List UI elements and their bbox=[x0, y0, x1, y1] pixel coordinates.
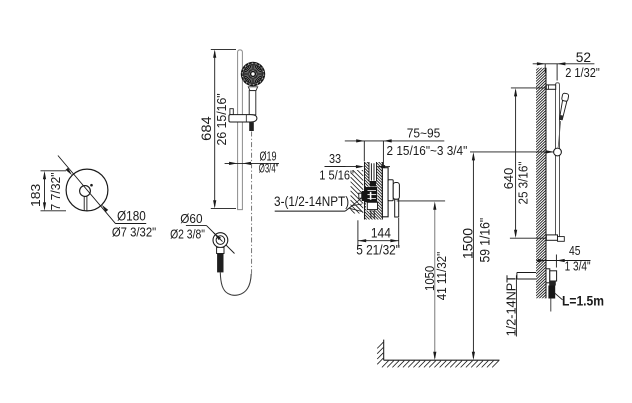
640 top extension bbox=[511, 87, 547, 89]
floor corner hatch bbox=[377, 342, 383, 364]
svg-text:Ø7 3/32": Ø7 3/32" bbox=[112, 225, 157, 240]
dimension 183 line bbox=[44, 173, 46, 209]
1500 reference line bbox=[470, 151, 553, 153]
NPT underline leader bbox=[275, 210, 346, 212]
33 underline bbox=[325, 166, 346, 168]
D60 underline bbox=[186, 225, 207, 227]
left inlet port dark bbox=[362, 191, 367, 201]
75-95 left extension bbox=[363, 141, 365, 162]
dimension 33 line left bbox=[325, 166, 363, 168]
dimension 684 bottom extension line bbox=[211, 208, 236, 210]
1050 reference line bbox=[397, 200, 445, 202]
svg-text:Ø3/4": Ø3/4" bbox=[259, 161, 279, 175]
dimension 33 arrow right bbox=[377, 165, 385, 168]
hand shower handle bbox=[249, 91, 256, 115]
hand shower side profile bbox=[558, 93, 569, 121]
svg-text:59 1/16": 59 1/16" bbox=[478, 218, 493, 263]
dimension 144 line bbox=[358, 240, 399, 242]
slide bar bbox=[238, 50, 243, 210]
52 extension bar bbox=[556, 64, 558, 81]
52 extension wall bbox=[544, 64, 546, 72]
45 extension bbox=[555, 255, 557, 268]
pipe slot walls bbox=[368, 162, 370, 182]
handle lever arm bbox=[393, 183, 399, 200]
75-95 right extension bbox=[382, 141, 384, 168]
D60 leader bbox=[207, 226, 235, 254]
leader arrow lower bbox=[102, 205, 109, 212]
hose centerline dash-dot bbox=[251, 132, 253, 274]
NPT underline vertical bbox=[515, 275, 517, 336]
dimension 1500 line bbox=[472, 154, 474, 358]
elbow body bbox=[550, 271, 557, 281]
supply elbow outer circle bbox=[213, 233, 228, 248]
wall section hatch bbox=[365, 142, 383, 238]
hose nipple dark bbox=[249, 122, 254, 131]
elbow hose connector dark bbox=[217, 254, 223, 273]
bracket clamp line bbox=[245, 115, 247, 122]
dimension 144 right extension bbox=[398, 218, 400, 247]
side wall hatch bbox=[536, 58, 546, 307]
plaster sparse hatch bbox=[351, 154, 364, 227]
slider bracket bbox=[229, 115, 257, 122]
svg-text:1500: 1500 bbox=[461, 228, 476, 259]
cartridge white detail bbox=[368, 190, 377, 192]
svg-text:Ø2 3/8": Ø2 3/8" bbox=[170, 227, 205, 242]
dimension 183 bottom extension line bbox=[41, 210, 67, 212]
elbow nut dark bbox=[549, 281, 556, 286]
svg-text:25 3/16": 25 3/16" bbox=[516, 161, 531, 204]
dimension 52 line bbox=[533, 63, 595, 65]
slider circle side bbox=[554, 148, 562, 156]
hose curve bbox=[220, 272, 251, 295]
supply pipe side bbox=[517, 272, 536, 274]
supply elbow inner circle bbox=[216, 236, 225, 245]
floor hatch bbox=[382, 361, 499, 368]
svg-text:2 1/32": 2 1/32" bbox=[565, 65, 600, 80]
side bar bbox=[556, 83, 560, 237]
bottom wall bracket bbox=[546, 235, 557, 240]
svg-text:3-(1/2-14NPT): 3-(1/2-14NPT) bbox=[274, 194, 349, 209]
dimension 684 top extension line bbox=[211, 48, 236, 50]
handle base bbox=[388, 180, 393, 201]
svg-text:1 5/16": 1 5/16" bbox=[319, 168, 354, 183]
NPT leader branches bbox=[352, 197, 363, 206]
svg-text:1 3/4": 1 3/4" bbox=[565, 259, 591, 274]
side hose upper bbox=[558, 121, 560, 148]
pipe slot white bbox=[369, 162, 377, 182]
supply tube bbox=[370, 163, 372, 180]
svg-text:684: 684 bbox=[199, 116, 214, 141]
side hose line bbox=[550, 299, 552, 312]
svg-text:41 11/32": 41 11/32" bbox=[434, 251, 449, 300]
dimension 183 top extension line bbox=[41, 170, 67, 172]
trim plate circle bbox=[66, 169, 108, 211]
side wall face line bbox=[545, 68, 547, 299]
dimension 75-95 line bbox=[345, 140, 445, 142]
svg-text:2 15/16"~3 3/4": 2 15/16"~3 3/4" bbox=[387, 143, 468, 158]
dimension 45 line bbox=[537, 260, 591, 262]
dimension D19 line bbox=[225, 162, 279, 164]
index dot on plate bbox=[90, 184, 93, 187]
dimension 640 line bbox=[515, 90, 517, 236]
stem lines below small circle bbox=[83, 196, 85, 211]
D60 leader arrow bbox=[213, 232, 222, 241]
svg-text:7 7/32": 7 7/32" bbox=[48, 172, 63, 210]
cartridge white backing bbox=[366, 187, 378, 211]
svg-text:52: 52 bbox=[576, 49, 592, 65]
svg-text:75~95: 75~95 bbox=[407, 125, 441, 140]
valve cartridge dark bbox=[365, 187, 377, 202]
svg-text:640: 640 bbox=[501, 168, 516, 190]
floor line bbox=[384, 359, 500, 361]
leader arrow upper bbox=[66, 168, 73, 175]
dimension 144 left extension bbox=[357, 220, 359, 247]
leader underline bbox=[116, 223, 147, 225]
elbow flange bbox=[546, 269, 550, 283]
640 bottom extension bbox=[510, 237, 546, 239]
svg-text:33: 33 bbox=[329, 151, 341, 166]
floor corner wall line bbox=[383, 340, 385, 361]
escutcheon plate bbox=[382, 168, 388, 217]
lower tube bbox=[370, 210, 372, 219]
svg-text:26 15/16": 26 15/16" bbox=[214, 93, 229, 145]
lower body step bbox=[367, 202, 377, 209]
valve stem small circle bbox=[80, 186, 91, 197]
slider bracket knob bbox=[230, 109, 233, 115]
wall left face line bbox=[364, 162, 366, 220]
bottom bracket step bbox=[558, 237, 565, 242]
dimension 1050 line bbox=[434, 204, 436, 358]
diameter leader line bbox=[58, 156, 116, 224]
hand shower neck bbox=[248, 87, 257, 91]
L=1.5m leader bbox=[554, 292, 563, 300]
svg-text:5 21/32": 5 21/32" bbox=[356, 243, 400, 258]
top wall bracket bbox=[546, 85, 555, 89]
svg-text:144: 144 bbox=[371, 226, 391, 241]
svg-text:Ø60: Ø60 bbox=[180, 211, 202, 226]
svg-text:45: 45 bbox=[569, 243, 581, 258]
elbow nipple white bbox=[217, 247, 224, 253]
svg-text:L=1.5m: L=1.5m bbox=[562, 293, 604, 309]
tube end dark bbox=[370, 181, 376, 187]
left port stub bbox=[359, 193, 362, 198]
wall right face line bbox=[381, 162, 383, 220]
svg-text:Ø180: Ø180 bbox=[117, 209, 146, 224]
hand shower head bbox=[241, 62, 265, 86]
handle lever drop bbox=[395, 199, 399, 217]
dimension 684 line bbox=[214, 52, 216, 207]
svg-text:183: 183 bbox=[28, 184, 43, 207]
side hose dark bbox=[548, 286, 555, 299]
